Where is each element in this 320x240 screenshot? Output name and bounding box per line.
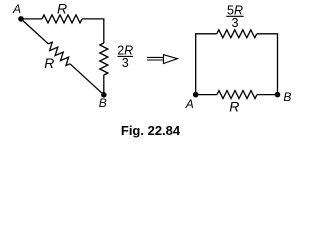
value label 5R/3 bbox=[226, 3, 243, 29]
node A (right circuit) bbox=[193, 92, 199, 98]
equivalence arrow shaft bbox=[147, 56, 164, 58]
svg-text:R: R bbox=[57, 0, 67, 16]
resistor R3 (diagonal, value R) bbox=[48, 42, 70, 65]
wire A to diagonal resistor bbox=[21, 19, 48, 44]
svg-text:R: R bbox=[44, 55, 54, 71]
resistor R2 (vertical, value 2R/3) bbox=[100, 43, 108, 75]
resistor R5 (bottom of right loop, value R) bbox=[217, 91, 257, 99]
svg-text:3: 3 bbox=[232, 16, 239, 30]
wire A to bottom resistor bbox=[196, 94, 217, 96]
node A (left circuit) bbox=[18, 16, 24, 22]
equivalence arrow head bbox=[164, 55, 178, 64]
resistor R4 (top of right loop, value 5R/3) bbox=[217, 30, 257, 38]
svg-text:A: A bbox=[185, 97, 194, 111]
wire top-right corner bbox=[82, 19, 104, 43]
svg-text:3: 3 bbox=[122, 56, 129, 70]
svg-text:Fig. 22.84: Fig. 22.84 bbox=[121, 123, 181, 138]
svg-text:B: B bbox=[283, 90, 291, 104]
svg-text:R: R bbox=[229, 98, 239, 114]
wire to node B bbox=[103, 75, 105, 95]
wire diagonal resistor to B bbox=[70, 64, 104, 95]
resistor R1 (top, value R) bbox=[42, 15, 82, 23]
wire left side of right loop bbox=[196, 34, 217, 95]
wire bottom resistor to B bbox=[257, 94, 278, 96]
wire A to resistor R1 bbox=[21, 18, 42, 20]
svg-text:B: B bbox=[99, 96, 107, 110]
node B (right circuit) bbox=[275, 92, 281, 98]
node B (left circuit) bbox=[101, 92, 107, 98]
value label 2R/3 bbox=[117, 44, 133, 70]
wire right side of right loop bbox=[257, 34, 278, 95]
svg-text:A: A bbox=[12, 2, 21, 16]
